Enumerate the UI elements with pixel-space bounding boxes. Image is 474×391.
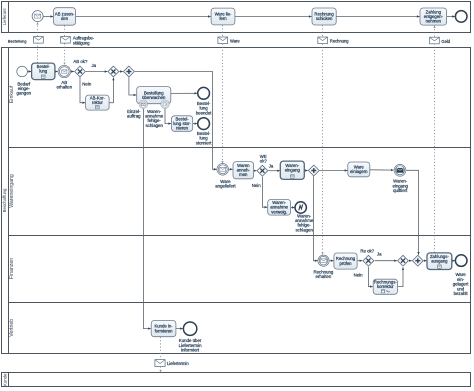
svg-text:men: men — [239, 172, 248, 177]
svg-text:Re ok?: Re ok? — [360, 248, 374, 253]
svg-text:schlagen: schlagen — [296, 227, 314, 232]
svg-text:formieren: formieren — [155, 328, 174, 333]
svg-text:überwachen: überwachen — [142, 95, 166, 100]
svg-text:schicken: schicken — [316, 16, 333, 21]
svg-text:eingang: eingang — [285, 168, 301, 173]
svg-text:Ja: Ja — [377, 252, 382, 257]
svg-text:Nein: Nein — [354, 273, 364, 278]
svg-text:Ja: Ja — [269, 164, 274, 169]
svg-text:Beschaffung: Beschaffung — [2, 188, 7, 212]
svg-text:quittiert: quittiert — [393, 188, 408, 193]
svg-text:gangen: gangen — [17, 91, 32, 96]
svg-text:Liefertermin: Liefertermin — [167, 361, 189, 366]
svg-text:nehmen: nehmen — [426, 19, 442, 24]
svg-text:Einkauf: Einkauf — [9, 85, 15, 103]
svg-text:Nein: Nein — [252, 183, 262, 188]
svg-text:einlagern: einlagern — [350, 169, 368, 174]
svg-text:auftrag: auftrag — [127, 114, 141, 119]
svg-text:erhalten: erhalten — [316, 274, 332, 279]
svg-text:ok?: ok? — [260, 159, 268, 164]
svg-text:Finanzen: Finanzen — [9, 258, 15, 279]
svg-text:ausgang: ausgang — [431, 259, 448, 264]
svg-text:informiert: informiert — [181, 348, 200, 353]
svg-text:beendet: beendet — [196, 110, 212, 115]
svg-text:Vertrieb: Vertrieb — [9, 319, 15, 337]
svg-text:AB ok?: AB ok? — [73, 59, 88, 64]
svg-text:Nein: Nein — [82, 82, 92, 87]
svg-text:Lieferant: Lieferant — [2, 8, 7, 26]
svg-text:verweig.: verweig. — [271, 209, 287, 214]
svg-text:bezahlt: bezahlt — [454, 291, 469, 296]
svg-text:angeliefert: angeliefert — [215, 184, 236, 189]
svg-text:Geld: Geld — [441, 39, 450, 44]
svg-text:prüfen: prüfen — [339, 261, 352, 266]
svg-text:lung: lung — [39, 69, 48, 74]
svg-text:nieren: nieren — [176, 126, 188, 131]
svg-text:den: den — [61, 16, 69, 21]
svg-text:storniert: storniert — [196, 140, 212, 145]
svg-text:erhalten: erhalten — [56, 85, 72, 90]
svg-text:Wareneingang: Wareneingang — [9, 174, 15, 208]
svg-text:Rechnung: Rechnung — [330, 39, 349, 44]
svg-text:Ware: Ware — [230, 39, 240, 44]
svg-text:fern: fern — [219, 16, 227, 21]
svg-text:rektur: rektur — [92, 100, 103, 105]
svg-text:Kunde: Kunde — [2, 373, 7, 386]
svg-text:stätigung: stätigung — [73, 40, 90, 45]
svg-text:schlagen: schlagen — [146, 123, 164, 128]
svg-text:Ja: Ja — [92, 63, 97, 68]
svg-text:Bestellung: Bestellung — [8, 39, 27, 44]
svg-text:korrektur: korrektur — [377, 284, 394, 289]
